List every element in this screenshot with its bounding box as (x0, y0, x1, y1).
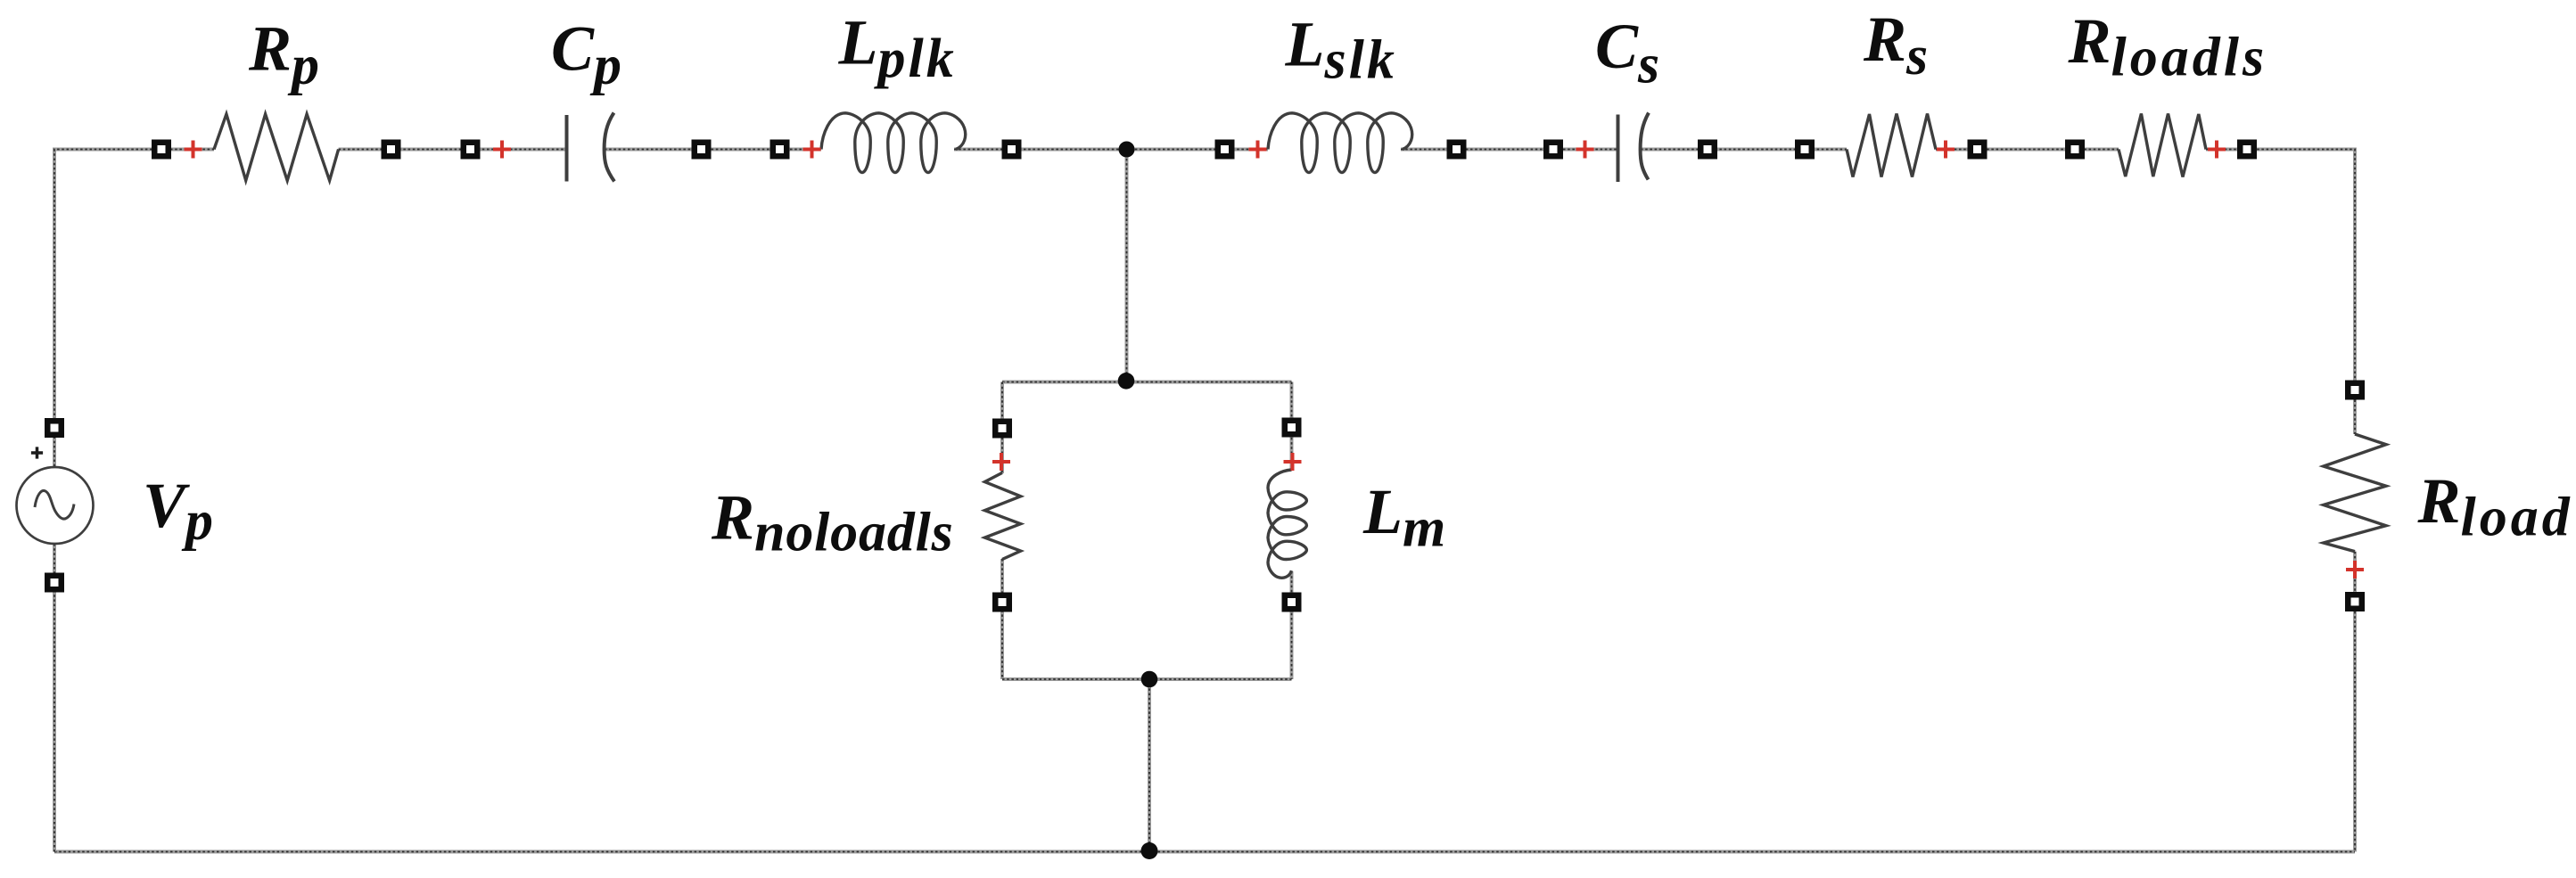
wire top-left corner / V_p to R_p (54, 150, 161, 468)
inductor L_slk (1215, 113, 1467, 173)
resistor R_loadls (2065, 114, 2257, 177)
capacitor C_p (461, 113, 712, 182)
inductor L_plk (770, 113, 1022, 173)
wire C_s to R_s zigzag (1641, 148, 1847, 152)
wire R_noloadls to branch bottom rail (1000, 559, 1004, 679)
junction magnetising branch bottom (1141, 671, 1158, 688)
wire stub to L_m (1290, 382, 1294, 472)
resistor R_load (2324, 381, 2386, 612)
wire L_plk to L_slk through node A (954, 148, 1268, 152)
resistor R_noloadls (984, 419, 1020, 612)
wire R_load top stub (2353, 400, 2357, 435)
wire L_m to branch bottom rail (1290, 571, 1294, 679)
wire magnetising branch bottom rail (1002, 677, 1292, 681)
wire branch bottom to bottom rail (1148, 679, 1151, 852)
wire R_s to R_loadls zigzag (1936, 148, 2119, 152)
voltage source V_p (17, 418, 94, 593)
wire R_load bottom to bottom rail (2353, 611, 2357, 852)
wire magnetising branch top rail (1002, 381, 1292, 384)
capacitor C_s (1543, 113, 1717, 183)
junction node A (top rail) (1119, 142, 1135, 158)
resistor R_s (1795, 114, 1988, 177)
inductor L_m (1268, 418, 1306, 612)
wire R_loadls to top-right corner down to R_load (2206, 150, 2355, 390)
wire L_slk to C_s left plate (1401, 148, 1618, 152)
wire R_p left terminal to zigzag (170, 148, 214, 152)
wire R_load bottom stub (2353, 552, 2357, 593)
junction magnetising branch top (1118, 373, 1135, 390)
wire stub to R_noloadls (1000, 382, 1004, 474)
wire R_p to C_p left plate (339, 148, 567, 152)
wire V_p bottom to bottom rail (53, 544, 56, 852)
junction bottom rail (1141, 842, 1158, 859)
resistor R_p (152, 114, 401, 181)
wire bottom rail (54, 850, 2355, 854)
wire C_p to L_plk coil (605, 148, 821, 152)
wire node A down to magnetising branch (1125, 150, 1129, 382)
